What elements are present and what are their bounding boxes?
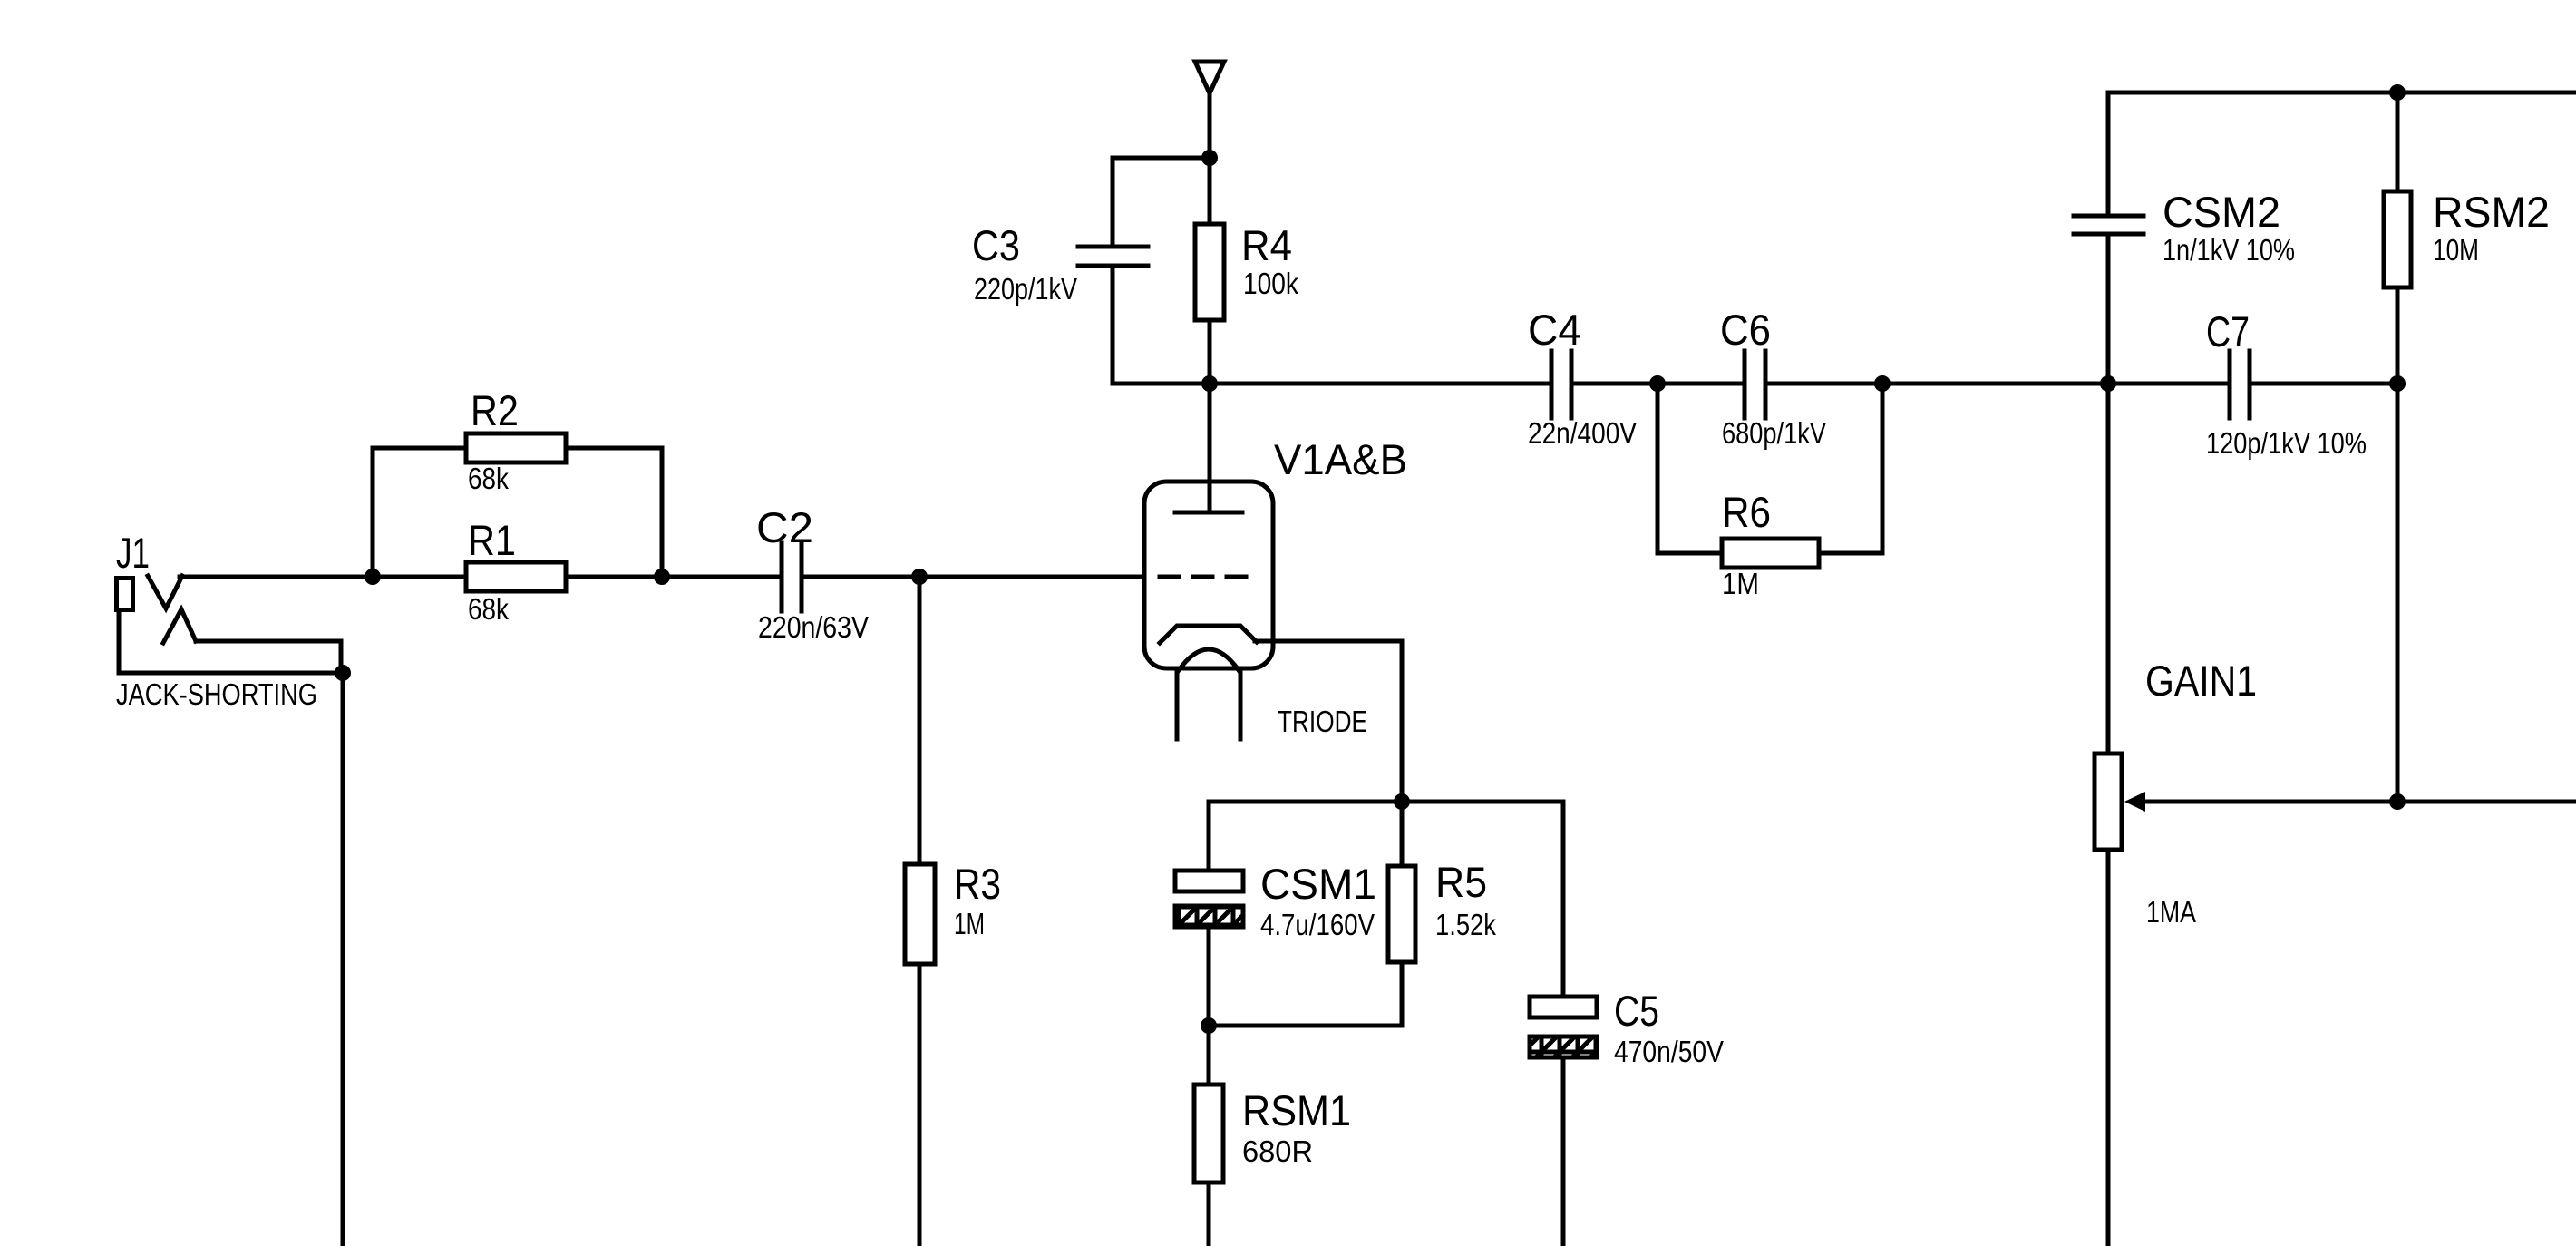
wire arrow to node — [1208, 95, 1212, 158]
wire C3 branch top — [1113, 156, 1210, 161]
junction R6 right node — [1874, 375, 1891, 392]
wire R4 top lead — [1208, 158, 1212, 224]
resistor R4 — [1195, 224, 1224, 320]
wire CSM2 top lead — [2106, 92, 2111, 213]
wire junction to RSM1 — [1207, 1026, 1211, 1085]
wire R4 bottom lead — [1208, 320, 1212, 384]
svg-text:R5: R5 — [1435, 858, 1487, 906]
wire C5 to bottom edge — [1561, 1057, 1566, 1246]
wire C3 top lead — [1111, 158, 1115, 244]
svg-text:220p/1kV: 220p/1kV — [974, 272, 1077, 306]
wire C3 bottom lead — [1111, 268, 1115, 384]
wire C3 branch bottom — [1113, 382, 1210, 386]
wire RSM1 to bottom edge — [1207, 1183, 1211, 1246]
wire right node down to wiper rail — [2396, 384, 2400, 802]
wire R1 to C2 — [566, 575, 782, 579]
wire cathode down — [1400, 641, 1405, 802]
svg-text:C2: C2 — [756, 503, 813, 551]
wire cathode out — [1255, 639, 1402, 644]
wire shorting contact to node — [196, 639, 341, 644]
wire cathode rail — [1209, 800, 1563, 804]
resistor R1 — [466, 562, 566, 591]
junction R6 left node — [1649, 375, 1666, 392]
resistor R6 — [1722, 539, 1819, 568]
wire anode lead into tube — [1208, 384, 1212, 510]
capacitor C3 — [1078, 245, 1148, 249]
svg-text:1n/1kV 10%: 1n/1kV 10% — [2163, 233, 2295, 267]
svg-text:J1: J1 — [116, 529, 150, 577]
wire R5 bottom to junction — [1209, 1024, 1402, 1028]
power arrow symbol — [1195, 62, 1224, 93]
svg-text:RSM1: RSM1 — [1242, 1086, 1351, 1134]
svg-text:R2: R2 — [471, 386, 519, 434]
capacitor CSM2 — [2074, 214, 2143, 219]
tube V1A&B envelope — [1144, 482, 1273, 668]
capacitor C5 positive plate — [1530, 997, 1597, 1017]
wire grid node down to R3 — [918, 577, 922, 864]
svg-text:R3: R3 — [954, 860, 1001, 908]
wire CSM2 bottom lead — [2106, 237, 2111, 384]
wire — [339, 641, 344, 673]
junction grid node — [911, 569, 928, 585]
wire wiper rail — [2142, 800, 2576, 804]
svg-text:RSM2: RSM2 — [2433, 188, 2550, 236]
svg-text:R4: R4 — [1241, 221, 1292, 269]
svg-text:C7: C7 — [2206, 307, 2250, 355]
wire R2 branch left vertical — [371, 448, 375, 577]
junction RSM2 bottom node — [2389, 375, 2406, 392]
potentiometer GAIN1 wiper arrow — [2124, 792, 2145, 812]
svg-text:GAIN1: GAIN1 — [2145, 657, 2257, 705]
svg-text:68k: 68k — [468, 462, 509, 495]
svg-text:4.7u/160V: 4.7u/160V — [1260, 908, 1375, 941]
svg-text:CSM2: CSM2 — [2163, 188, 2280, 236]
capacitor CSM1 negative plate — [1175, 906, 1243, 927]
wire CSM1 bottom lead — [1207, 927, 1211, 1026]
svg-text:R6: R6 — [1722, 488, 1771, 536]
svg-text:68k: 68k — [468, 592, 509, 626]
svg-text:120p/1kV 10%: 120p/1kV 10% — [2206, 426, 2367, 460]
svg-text:JACK-SHORTING: JACK-SHORTING — [116, 677, 317, 711]
svg-text:220n/63V: 220n/63V — [758, 610, 869, 644]
wire sleeve bottom — [119, 671, 343, 676]
wire C6 to C7 — [1765, 382, 2230, 386]
svg-text:680p/1kV: 680p/1kV — [1722, 416, 1826, 450]
svg-text:V1A&B: V1A&B — [1274, 435, 1407, 483]
wire C4 to C6 — [1571, 382, 1745, 386]
svg-text:1MA: 1MA — [2146, 895, 2196, 929]
tube anode plate bar — [1175, 511, 1242, 515]
svg-text:C6: C6 — [1720, 306, 1771, 354]
wire RSM2 top lead — [2396, 92, 2400, 191]
wire R6 left vertical — [1656, 384, 1660, 553]
svg-text:R1: R1 — [468, 516, 516, 564]
resistor RSM1 — [1194, 1085, 1223, 1183]
capacitor C5 negative plate — [1530, 1037, 1597, 1057]
wire R2 branch right vertical — [660, 448, 665, 577]
svg-text:CSM1: CSM1 — [1260, 860, 1376, 908]
wire R6 left horizontal — [1657, 551, 1722, 556]
wire C5 top lead — [1561, 802, 1566, 997]
wire R6 right horizontal — [1819, 551, 1882, 556]
tube heater dome — [1179, 649, 1239, 670]
wire R3 to bottom edge — [918, 964, 922, 1246]
svg-text:470n/50V: 470n/50V — [1614, 1035, 1724, 1068]
wire input line jack to R1 — [180, 575, 466, 579]
resistor R2 — [466, 433, 566, 462]
potentiometer GAIN1 — [2095, 754, 2122, 850]
wire R5 bottom lead — [1400, 962, 1405, 1026]
wire top rail — [2108, 91, 2576, 95]
wire RSM2 bottom lead — [2396, 287, 2400, 384]
svg-text:10M: 10M — [2433, 233, 2479, 267]
tube heater lead right — [1239, 672, 1243, 739]
wire CSM1 top lead — [1207, 802, 1211, 871]
svg-text:100k: 100k — [1243, 267, 1298, 300]
wire R2 branch right horizontal — [566, 446, 662, 451]
wire anode node to C4 — [1210, 382, 1551, 386]
connector J1 shorting contact — [163, 609, 196, 643]
svg-text:C5: C5 — [1614, 987, 1659, 1035]
junction supply node — [1201, 150, 1218, 166]
wire CSM2 node down to pot — [2106, 384, 2111, 754]
wire C2 to grid — [802, 575, 1158, 579]
junction cathode node — [1394, 793, 1410, 810]
capacitor C7 — [2228, 351, 2232, 418]
wire sleeve node to bottom edge — [341, 673, 345, 1246]
wire R5 top lead — [1400, 802, 1405, 866]
resistor RSM2 — [2384, 191, 2411, 287]
svg-text:TRIODE: TRIODE — [1278, 705, 1367, 738]
junction input node right — [654, 569, 670, 585]
wire R6 right vertical — [1881, 384, 1885, 553]
wire sleeve down — [117, 610, 122, 673]
tube cathode electrode — [1160, 626, 1257, 643]
svg-text:1M: 1M — [1722, 567, 1759, 600]
junction top rail node — [2389, 84, 2406, 101]
connector J1 tip terminal — [117, 579, 133, 610]
junction jack sleeve node — [335, 665, 351, 681]
junction wiper rail node — [2389, 793, 2406, 810]
capacitor C4 — [1550, 351, 1554, 418]
resistor R3 — [905, 864, 935, 964]
tube heater lead left — [1175, 672, 1180, 739]
junction anode node — [1201, 375, 1218, 392]
svg-text:1M: 1M — [954, 907, 985, 940]
svg-text:C3: C3 — [972, 221, 1020, 269]
resistor R5 — [1388, 866, 1415, 962]
junction cathode bottom node — [1201, 1017, 1217, 1034]
capacitor CSM1 positive plate — [1175, 871, 1243, 891]
svg-text:C4: C4 — [1528, 306, 1581, 354]
junction input node left — [365, 569, 381, 585]
capacitor C6 — [1743, 351, 1747, 418]
capacitor C2 — [780, 543, 784, 611]
wire pot bottom to bottom edge — [2106, 850, 2111, 1246]
svg-text:22n/400V: 22n/400V — [1528, 416, 1637, 450]
wire C7 to right node — [2250, 382, 2397, 386]
wire R2 branch left horizontal — [373, 446, 466, 451]
connector J1 tip spring contact — [148, 576, 182, 608]
svg-text:1.52k: 1.52k — [1435, 908, 1496, 941]
tube grid dashed electrode — [1160, 575, 1246, 579]
svg-text:680R: 680R — [1242, 1134, 1313, 1168]
junction CSM2 bottom node — [2100, 375, 2116, 392]
